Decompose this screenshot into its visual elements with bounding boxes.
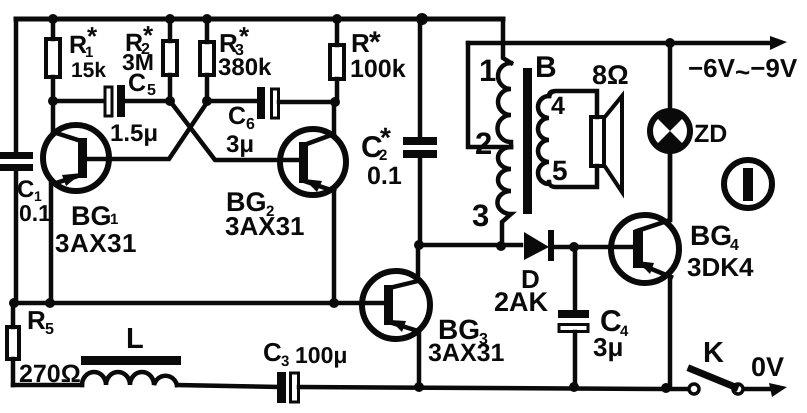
transformer B tap box wire (468, 43, 511, 147)
svg-text:2AK: 2AK (494, 287, 549, 317)
svg-text:R: R (351, 28, 370, 58)
svg-text:*: * (143, 20, 154, 50)
transistor BG1 (43, 125, 109, 191)
capacitor C3 (277, 372, 286, 403)
svg-text:8Ω: 8Ω (592, 60, 629, 90)
battery terminal arrow (770, 36, 787, 50)
resistor R2 (168, 19, 173, 101)
wire switch to 0V terminal (745, 387, 770, 392)
svg-text:*: * (239, 21, 250, 51)
svg-text:3DK4: 3DK4 (687, 252, 754, 282)
resistor R5 (11, 303, 16, 385)
junction C2 top rail (416, 13, 428, 25)
capacitor C2 (418, 19, 423, 245)
wire top supply rail (16, 17, 503, 22)
transformer B primary winding lower (497, 147, 511, 246)
svg-text:0V: 0V (751, 352, 784, 382)
wire bottom rail (299, 387, 688, 389)
svg-text:L: L (126, 323, 144, 355)
wire -6V rail (468, 41, 770, 46)
svg-text:3AX31: 3AX31 (55, 228, 137, 258)
transformer B primary pin1 wire (503, 19, 511, 63)
svg-text:*: * (380, 122, 391, 153)
junction C4 bottom rail (569, 382, 579, 392)
svg-text:3AX31: 3AX31 (428, 339, 505, 367)
transformer secondary bottom lead (549, 166, 597, 187)
svg-text:100μ: 100μ (295, 342, 347, 368)
wire bottom left (13, 383, 82, 388)
svg-text:3μ: 3μ (593, 332, 623, 362)
junction R 100k top rail (332, 14, 342, 24)
junction BG3 emitter bottom rail (414, 382, 424, 392)
node BG2 collector / R 100k / C6 (330, 97, 340, 107)
svg-text:2: 2 (475, 126, 492, 161)
junction BG4 emitter bottom rail (661, 383, 671, 393)
svg-text:100k: 100k (350, 55, 406, 83)
svg-text:3AX31: 3AX31 (225, 211, 305, 241)
svg-text:BG: BG (71, 201, 112, 231)
svg-text:0.1: 0.1 (19, 200, 51, 226)
svg-text:5: 5 (552, 155, 568, 186)
terminal arrow 0V (769, 383, 787, 397)
junction C1 / R5 on emitter rail (9, 298, 19, 308)
svg-text:−6V~−9V: −6V~−9V (688, 53, 798, 87)
svg-text:15k: 15k (71, 59, 106, 82)
wire C2 node to diode (419, 243, 521, 248)
svg-text:5: 5 (45, 321, 54, 338)
svg-text:C: C (17, 176, 34, 203)
svg-text:5: 5 (147, 82, 156, 99)
junction BG2 emitter on rail (329, 298, 339, 308)
svg-text:1: 1 (110, 211, 118, 228)
wire middle emitter rail (14, 301, 385, 306)
node R2 / C5 / BG2 base coupling (165, 96, 175, 106)
svg-text:BG: BG (690, 220, 732, 251)
figure mark circled 1 (724, 160, 772, 208)
svg-text:K: K (703, 337, 724, 369)
inductor L (82, 372, 177, 385)
node R3 / C6 / BG1 base coupling (202, 96, 212, 106)
svg-text:3μ: 3μ (226, 131, 254, 158)
svg-text:ZD: ZD (694, 120, 727, 148)
svg-text:B: B (535, 51, 557, 84)
transformer B core (523, 68, 532, 214)
resistor R1 (51, 19, 56, 101)
svg-text:*: * (87, 21, 98, 51)
node C2 / BG3 collector (414, 240, 424, 250)
capacitor C4 (573, 248, 578, 387)
wire C1 bottom to mid rail (14, 170, 19, 303)
junction R1 top rail (48, 14, 58, 24)
capacitor C1 (0, 152, 33, 171)
junction BG1 emitter on rail (45, 298, 55, 308)
transformer secondary top lead (549, 91, 597, 117)
resistor R* 100k (335, 19, 340, 102)
svg-text:0.1: 0.1 (367, 162, 402, 190)
transformer B secondary winding (538, 96, 549, 184)
switch K (689, 384, 699, 394)
wire cross-coupling diagonal to BG2 base (170, 101, 300, 160)
capacitor C6 (207, 101, 335, 102)
svg-text:C: C (263, 337, 282, 367)
transistor BG4 (611, 215, 679, 283)
wire L to C3 (177, 385, 278, 387)
svg-text:380k: 380k (218, 54, 272, 81)
transistor BG2 (280, 129, 346, 195)
resistor R3 (205, 19, 210, 101)
svg-text:3: 3 (281, 353, 289, 370)
junction R2 top rail (165, 14, 175, 24)
svg-text:4: 4 (551, 92, 565, 120)
inductor L core bar (81, 356, 181, 365)
svg-text:C: C (228, 102, 246, 130)
svg-text:1: 1 (479, 53, 496, 88)
diode D 2AK (524, 232, 549, 260)
node BG1 collector / R1 / C5 (48, 96, 58, 106)
svg-text:1.5μ: 1.5μ (110, 120, 158, 147)
svg-text:3: 3 (472, 198, 489, 233)
lamp ZD (668, 43, 673, 220)
speaker 8ohm (591, 117, 604, 166)
transistor BG3 (362, 271, 430, 339)
junction R3 top rail (202, 14, 212, 24)
wire BG1 base lead and diagonal to R3 node (87, 101, 208, 159)
node diode cathode / C4 / BG4 base (569, 242, 579, 252)
svg-text:R: R (27, 305, 46, 335)
capacitor C5 (53, 99, 170, 104)
wire left edge down to C1 (14, 19, 19, 153)
junction ZD branch on -6V rail (665, 38, 675, 48)
node transformer pin3 / diode anode (496, 241, 506, 251)
transformer B primary winding upper (498, 63, 512, 147)
svg-text:C: C (128, 69, 146, 97)
